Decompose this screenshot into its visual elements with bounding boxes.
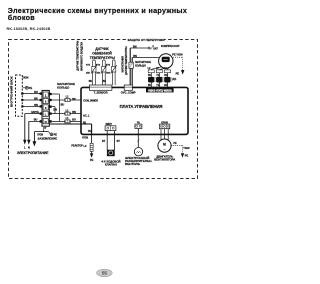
svg-text:BN: BN (133, 45, 137, 48)
svg-text:НАРУЖНОГО ВОЗДУХА: НАРУЖНОГО ВОЗДУХА (81, 42, 84, 71)
power wire N vertical with arrow (27, 121, 30, 149)
svg-text:РЕАКТОР: РЕАКТОР (71, 144, 83, 147)
outdoor unit dashed border (9, 40, 198, 179)
svg-text:55: 55 (102, 271, 108, 276)
svg-text:4WAY: 4WAY (105, 123, 112, 126)
svg-text:ВЕНТИЛЬ: ВЕНТИЛЬ (125, 162, 141, 166)
rotated label: discharge temp sensor (122, 46, 129, 75)
label: overload protection (on top border) (127, 37, 164, 42)
svg-text:AC_L: AC_L (83, 114, 90, 117)
control board box (81, 87, 188, 134)
svg-text:Y/GN: Y/GN (183, 147, 189, 150)
svg-text:PE: PE (176, 72, 180, 75)
electronic expansion valve wire (137, 129, 139, 148)
compressor wire color labels row 1 (148, 75, 168, 77)
ground wire to board PE (49, 124, 91, 135)
indoor box terminal stubs (21, 93, 23, 108)
terminal block right pin stubs (49, 93, 51, 123)
svg-text:ДВИГАТЕЛЬ: ДВИГАТЕЛЬ (156, 154, 173, 158)
grounding down arrow (33, 132, 37, 147)
wire BU terminal N to N1 with ferrite ring L1 (52, 117, 82, 123)
svg-text:SAT: SAT (153, 47, 158, 50)
compressor wire color labels row 2 (148, 83, 168, 88)
svg-text:BU: BU (148, 75, 152, 77)
svg-text:50K: 50K (106, 72, 110, 74)
connector 4WAY (105, 123, 116, 131)
svg-text:PE: PE (88, 130, 92, 133)
svg-text:BU: BU (61, 104, 65, 107)
svg-text:BT: BT (102, 140, 106, 143)
terminal block left pin stubs (40, 92, 42, 122)
fan motor wires (161, 129, 168, 140)
svg-text:Y/GN: Y/GN (22, 76, 28, 79)
overload protector wires from OVC_COMP (130, 45, 159, 85)
compressor wires to rings (151, 67, 169, 78)
svg-text:L: L (45, 113, 47, 117)
compressor terminal plate (148, 77, 177, 83)
svg-text:BT: BT (117, 140, 121, 143)
svg-text:ОБМЕННОЙ: ОБМЕННОЙ (92, 52, 112, 56)
fan motor PE ground (171, 142, 189, 158)
svg-text:~: ~ (163, 148, 165, 152)
sensors label block (90, 47, 115, 60)
svg-text:ДАТЧИК ТЕМПЕРАТУРЫ: ДАТЧИК ТЕМПЕРАТУРЫ (76, 40, 79, 70)
ferrite rings L2 on compressor wires (148, 67, 171, 73)
magnetic ring on compressor protector wires (129, 61, 151, 68)
svg-text:PE: PE (90, 159, 94, 162)
svg-text:КЛАПАН: КЛАПАН (105, 162, 117, 166)
wire from terminal 1 down to N1 row (52, 94, 65, 121)
reactor wire Y/GN below board (82, 134, 92, 143)
reactor ground arrow PE (90, 151, 94, 162)
svg-text:RD: RD (164, 75, 168, 77)
thermistor RT2 (96, 60, 107, 85)
connector OVC_COMP (121, 85, 136, 94)
svg-text:ЗАЗЕМЛЕНИЕ: ЗАЗЕМЛЕНИЕ (38, 136, 58, 140)
page number oval (97, 269, 113, 276)
svg-text:BN: BN (72, 111, 76, 114)
svg-text:PE: PE (29, 87, 33, 90)
power wire L vertical with arrow (23, 114, 26, 150)
svg-text:КОЛЬЦО: КОЛЬЦО (135, 65, 146, 68)
wire BK indoor to terminal 2 (22, 97, 42, 100)
compressor motor circle (159, 54, 173, 68)
svg-text:CON_INNER: CON_INNER (83, 100, 98, 103)
svg-text:(3)1: (3)1 (172, 79, 177, 81)
svg-text:ДАТЧИК: ДАТЧИК (95, 47, 109, 51)
svg-text:МАГНИТНОЕ: МАГНИТНОЕ (135, 61, 151, 64)
svg-text:BU: BU (72, 119, 76, 122)
svg-text:блоков: блоков (8, 13, 36, 22)
4-way valve coil (101, 150, 120, 167)
overload protector SAT (147, 46, 158, 51)
svg-text:Y/GN: Y/GN (82, 137, 88, 140)
svg-text:T_SENSOR: T_SENSOR (94, 90, 108, 94)
svg-text:BK: BK (103, 80, 107, 83)
svg-text:N: N (28, 145, 30, 149)
thermistor RT3 (106, 60, 117, 85)
svg-text:25K: 25K (86, 72, 90, 74)
svg-text:ЗАЩИТА ОТ ПЕРЕГРУЗКИ: ЗАЩИТА ОТ ПЕРЕГРУЗКИ (127, 38, 164, 42)
reactor L3 (71, 143, 93, 151)
svg-text:ЭЛЕКТРОПИТАНИЕ: ЭЛЕКТРОПИТАНИЕ (17, 151, 49, 155)
svg-text:ПЛАТА УПРАВЛЕНИЯ: ПЛАТА УПРАВЛЕНИЯ (120, 104, 163, 109)
svg-text:BK: BK (72, 98, 76, 101)
svg-text:BU: BU (34, 91, 38, 94)
title (8, 6, 187, 22)
svg-text:КОЛЬЦО: КОЛЬЦО (57, 86, 70, 90)
wire BN indoor to terminal 3 (22, 104, 42, 107)
indoor unit dashed box (16, 75, 23, 116)
svg-text:PE: PE (173, 142, 177, 145)
svg-text:M: M (163, 142, 166, 146)
svg-text:ТЕМПЕРАТУРЫ: ТЕМПЕРАТУРЫ (90, 56, 115, 60)
svg-text:PE Y/GN: PE Y/GN (172, 53, 182, 56)
svg-text:N: N (45, 120, 47, 124)
svg-text:BN: BN (133, 55, 137, 58)
svg-text:НАГНЕТАНИЯ: НАГНЕТАНИЯ (122, 56, 125, 73)
magnetic ring label (left group) (57, 82, 75, 90)
fan motor (154, 139, 175, 162)
rotated label: outdoor air temp sensor (76, 40, 83, 71)
connector FA (135, 121, 142, 128)
svg-text:BU: BU (34, 119, 38, 122)
svg-text:OVC_COMP: OVC_COMP (121, 90, 136, 94)
4-way valve wires (102, 131, 120, 150)
svg-text:BK: BK (34, 97, 38, 100)
compressor PE labels (172, 53, 184, 75)
svg-text:КОМПРЕССОР: КОМПРЕССОР (161, 44, 180, 48)
terminal block outdoor (42, 90, 49, 126)
thermistor RT1 (86, 60, 97, 85)
svg-text:15K: 15K (96, 72, 100, 74)
svg-text:BK: BK (89, 80, 93, 83)
electronic expansion valve (125, 148, 152, 167)
indoor PE symbol (22, 86, 32, 90)
svg-text:BN: BN (53, 109, 57, 112)
wire GN/YE to terminal L (25, 111, 42, 114)
wire from terminal 3 jog to AC_L row (52, 107, 57, 114)
wire BU to terminal N (29, 119, 42, 122)
svg-text:YE: YE (156, 75, 160, 77)
compressor board connector (black bar) (146, 87, 174, 92)
wire BN terminal L to AC_L with ferrite ring L1 (52, 109, 82, 115)
svg-text:BN: BN (34, 104, 38, 107)
svg-text:PE: PE (185, 154, 189, 157)
wire BU indoor to terminal 1 (22, 91, 42, 94)
svg-text:GN/YE: GN/YE (31, 111, 39, 114)
svg-text:RK-18302B, RK-24302B: RK-18302B, RK-24302B (7, 27, 51, 31)
wire BK terminal2 to CON_INNER with ferrite ring L1 (52, 96, 82, 102)
connector T_SENSOR (89, 85, 112, 94)
grounding wire and PE at terminal block bottom (34, 129, 57, 140)
svg-text:ВНУТРЕННИЙ БЛОК: ВНУТРЕННИЙ БЛОК (10, 76, 14, 107)
svg-text:ДАТЧИК ТЕМПЕРАТУРЫ: ДАТЧИК ТЕМПЕРАТУРЫ (125, 46, 128, 75)
connector OFAN (159, 122, 169, 129)
svg-text:U(BU) V(YE) W(RD): U(BU) V(YE) W(RD) (148, 88, 172, 92)
